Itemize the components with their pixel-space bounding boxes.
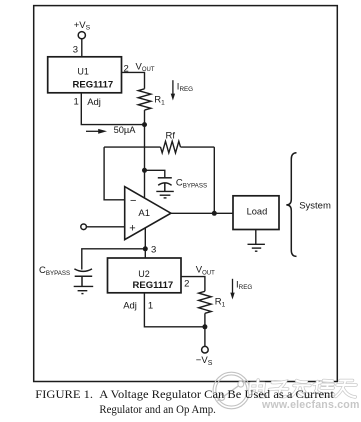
svg-text:1: 1 bbox=[148, 301, 153, 312]
node pin3 bbox=[143, 246, 148, 251]
wire node3 to C_BYPASS 2 bbox=[82, 249, 146, 270]
wire U1 pin2 to R1 bbox=[122, 72, 145, 88]
svg-text:IREG: IREG bbox=[236, 279, 252, 291]
node feedback/C_BYPASS junction bbox=[142, 168, 147, 173]
Load box bbox=[233, 196, 279, 230]
regulator U2 bbox=[108, 258, 182, 293]
border frame bbox=[34, 6, 338, 382]
50uA arrow bbox=[86, 129, 107, 134]
noninverting input terminal bbox=[81, 224, 87, 230]
wire node to feedback node bbox=[144, 125, 146, 171]
svg-text:50µA: 50µA bbox=[114, 125, 137, 135]
wire U1 pin1 Adj bbox=[81, 93, 144, 125]
watermark logo bbox=[213, 372, 250, 409]
ground (C_BYPASS 2) bbox=[74, 286, 94, 293]
svg-text:R1: R1 bbox=[154, 95, 165, 107]
svg-text:U2: U2 bbox=[138, 269, 150, 279]
svg-text:3: 3 bbox=[151, 245, 156, 256]
wire +Vs to U1 pin3 bbox=[81, 39, 83, 57]
wire U2 pin1 Adj bbox=[144, 293, 205, 327]
svg-text:Load: Load bbox=[247, 207, 268, 217]
node junction R1/Adj bbox=[142, 122, 147, 127]
wire right drop to output node bbox=[213, 147, 215, 213]
I_REG arrow (bottom) bbox=[230, 279, 234, 300]
svg-text:VOUT: VOUT bbox=[136, 61, 155, 73]
svg-text:Rf: Rf bbox=[166, 131, 176, 142]
svg-text:Regulator and an Op Amp.: Regulator and an Op Amp. bbox=[99, 404, 216, 416]
svg-text:R1: R1 bbox=[215, 297, 226, 309]
wire R1 to node bbox=[204, 313, 206, 327]
ground (Load) bbox=[248, 230, 265, 252]
svg-text:VOUT: VOUT bbox=[196, 265, 215, 277]
resistor Rf bbox=[161, 141, 181, 153]
wire node to -Vs terminal bbox=[204, 327, 206, 347]
capacitor C_BYPASS 2 bbox=[74, 269, 92, 286]
wire feedback left drop to inverting input bbox=[104, 147, 125, 200]
resistor R1 (top) bbox=[138, 89, 151, 110]
wire Rf to right drop bbox=[181, 146, 215, 148]
watermark chinese characters bbox=[249, 380, 357, 397]
svg-text:U1: U1 bbox=[77, 67, 89, 77]
-Vs terminal bbox=[202, 346, 209, 353]
feedback wire with Rf bbox=[104, 146, 160, 148]
node output bbox=[212, 211, 217, 216]
wire feedback node into op-amp top edge bbox=[144, 170, 146, 197]
svg-text:3: 3 bbox=[73, 45, 78, 56]
wire R1 to node bbox=[144, 110, 146, 125]
svg-text:−VS: −VS bbox=[196, 355, 213, 367]
svg-text:CBYPASS: CBYPASS bbox=[39, 265, 70, 277]
svg-text:IREG: IREG bbox=[177, 82, 193, 94]
wire output to Load bbox=[171, 212, 233, 214]
wire + input bbox=[86, 226, 124, 228]
svg-text:Adj: Adj bbox=[87, 97, 101, 108]
svg-text:System: System bbox=[299, 200, 331, 211]
svg-text:−: − bbox=[130, 195, 136, 207]
ground (C_BYPASS 1) bbox=[156, 191, 174, 198]
svg-text:REG1117: REG1117 bbox=[73, 80, 114, 91]
svg-text:+VS: +VS bbox=[74, 20, 91, 32]
svg-text:Adj: Adj bbox=[123, 301, 137, 312]
wire U2 pin2 to R1 bbox=[181, 277, 205, 292]
system brace bbox=[286, 153, 296, 257]
regulator U1 bbox=[48, 57, 122, 93]
capacitor C_BYPASS 1 bbox=[158, 178, 172, 192]
svg-text:REG1117: REG1117 bbox=[133, 280, 174, 291]
svg-text:2: 2 bbox=[184, 279, 189, 290]
op-amp A1 bbox=[125, 187, 171, 240]
+Vs terminal bbox=[78, 32, 85, 39]
resistor R1 (bottom) bbox=[199, 291, 212, 313]
wire op-amp pin3 to node bbox=[144, 228, 146, 258]
svg-text:FIGURE 1. A Voltage Regulator: FIGURE 1. A Voltage Regulator Can Be Use… bbox=[35, 388, 334, 401]
wire node to C_BYPASS 1 bbox=[145, 170, 165, 177]
svg-text:2: 2 bbox=[124, 64, 129, 75]
svg-text:+: + bbox=[129, 222, 135, 234]
svg-text:1: 1 bbox=[74, 97, 79, 108]
node -Vs bbox=[202, 324, 207, 329]
svg-text:A1: A1 bbox=[138, 208, 150, 219]
I_REG arrow (top) bbox=[171, 80, 175, 100]
svg-text:CBYPASS: CBYPASS bbox=[176, 177, 207, 189]
